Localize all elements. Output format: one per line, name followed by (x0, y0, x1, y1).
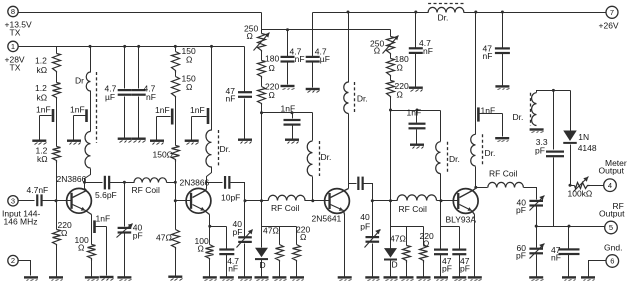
inductor RF Coil 2 (268, 195, 305, 200)
terminal 8 (+13.5V TX) (8, 6, 18, 16)
label 40 (trim2) (360, 212, 370, 222)
capacitor 47nF (26V bypass) (495, 13, 510, 86)
node coil1 junction (174, 181, 177, 184)
ground 4.7nF mid (281, 85, 295, 90)
resistor 100 (Q1 emitter) (88, 245, 96, 261)
label 1nF (choke A) (70, 105, 85, 115)
label Input 144- (2, 209, 40, 219)
svg-text:Ω: Ω (198, 244, 204, 254)
svg-text:Output: Output (599, 208, 625, 218)
core choke D (447, 142, 449, 174)
ground 47 Q2 base (168, 276, 182, 281)
svg-text:4: 4 (608, 181, 612, 190)
wire Q4 emitter (474, 215, 476, 277)
wire 1nF A to ground (74, 116, 86, 140)
svg-text:Dr.: Dr. (321, 152, 332, 162)
svg-text:47Ω: 47Ω (390, 233, 406, 243)
svg-text:5: 5 (609, 223, 613, 232)
wire Q2 collector riser (206, 183, 208, 189)
wire base to 47pF pair (441, 201, 460, 227)
svg-text:pF: pF (516, 205, 526, 215)
svg-text:D: D (260, 260, 266, 270)
svg-text:8: 8 (11, 7, 15, 16)
node stage2 net top (260, 199, 263, 202)
svg-text:pF: pF (460, 263, 470, 273)
terminal 4 (Meter Output) (604, 179, 617, 192)
node rail 4.7nF st3 tap (414, 11, 417, 14)
label 1nF (Q1 emitter) (96, 214, 111, 224)
label 220 (Q1 base) (58, 220, 72, 230)
trimmer resistor 250 (chain1) (254, 33, 270, 52)
label 220 (chain1) (265, 82, 279, 92)
label pF (b) (460, 263, 470, 273)
svg-text:Dr.: Dr. (438, 13, 449, 23)
svg-text:nF: nF (226, 93, 236, 103)
wire 47 to ground (175, 250, 177, 277)
svg-text:RF Coil: RF Coil (271, 203, 299, 213)
inductor Dr E (Q4 collector choke) (471, 134, 476, 166)
node stage3 out junction (371, 199, 374, 202)
capacitor 5.6pF (104, 176, 111, 190)
svg-text:1nF: 1nF (190, 105, 205, 115)
terminal 6 (Gnd) (606, 255, 619, 268)
label Ohm 250 c2 (374, 46, 380, 56)
svg-text:Ω: Ω (269, 63, 275, 73)
wire to Q2 base node (175, 183, 177, 201)
ground 47 stage3 (400, 276, 414, 280)
transistor Q3 2N5641 (325, 189, 350, 215)
core choke A (96, 72, 98, 143)
terminal 5 (RF Output) (605, 221, 618, 234)
inductor Dr (Q3 collector choke) (344, 82, 349, 114)
wire 150 column top (175, 47, 177, 52)
node rail 4.7nF junction (137, 45, 140, 48)
svg-text:Gnd.: Gnd. (604, 242, 622, 252)
capacitor series (Q3 out) (357, 177, 364, 190)
node rail-choke junction (89, 45, 92, 48)
resistor 150 (b) (172, 77, 180, 98)
label uF (TL) (105, 92, 115, 102)
label pF (trim1) (233, 227, 243, 237)
inductor RF Coil 3 (397, 195, 436, 201)
node rail Q3 collector junction (347, 11, 350, 14)
label 250 (chain2) (370, 38, 384, 48)
label 47 (out) (551, 245, 561, 255)
svg-text:1nF: 1nF (407, 107, 422, 117)
label TX (28V) (10, 62, 21, 72)
label TX (13.5V) (10, 27, 21, 37)
ground at terminal 2 (24, 276, 38, 280)
wire choke A middle (90, 91, 92, 132)
resistor 220 (stage3 net) (420, 227, 428, 277)
wire bias1 down to choke C (312, 113, 314, 141)
label D (stage3) (392, 260, 398, 270)
label Dr. (choke B) (220, 144, 231, 154)
svg-text:RF Coil: RF Coil (489, 169, 517, 179)
svg-text:Ω: Ω (374, 46, 380, 56)
ground 1nF bias Q1 (32, 140, 46, 145)
wire Q3 emitter (344, 215, 346, 277)
ground 220 Q1 base (49, 276, 63, 280)
label Dr (choke A) (75, 76, 84, 86)
capacitor 47pF (a) (434, 227, 448, 277)
node rail 150 junction (174, 45, 177, 48)
label 4.7nF input (27, 185, 49, 195)
svg-text:1nF: 1nF (96, 214, 111, 224)
label Meter (605, 158, 627, 168)
wire 250-180 c1 (261, 52, 263, 61)
ground 47pF b (452, 276, 466, 280)
capacitor 1nF feedthrough (Q1 emitter) (93, 220, 96, 233)
label 1nF (choke E) (481, 105, 496, 115)
wire 100k to terminal 4 (590, 185, 604, 187)
label 47 (b) (460, 256, 470, 266)
label kOhm (c) (37, 154, 48, 164)
svg-text:Ω: Ω (186, 54, 192, 64)
label 5.6pF (95, 190, 117, 200)
svg-text:Dr.: Dr. (485, 148, 496, 158)
ground 4.7nF TL (132, 138, 146, 143)
wire between 150 a-b (175, 73, 177, 77)
node detector 3.3pF tap (552, 89, 555, 92)
label D (stage2) (260, 260, 266, 270)
svg-text:Dr.: Dr. (513, 112, 524, 122)
label Ohm (Q2em) (198, 244, 204, 254)
svg-text:Output: Output (599, 165, 625, 175)
svg-text:Ω: Ω (397, 63, 403, 73)
capacitor 1nF (bias node 2) (284, 113, 301, 139)
resistor 220 (chain1) (258, 87, 266, 105)
wire 150c to coil node (175, 162, 177, 183)
label pF (a) (442, 263, 452, 273)
capacitor 1nF (bias node 3) (409, 111, 426, 144)
label 1.2 (c) (36, 146, 48, 156)
wire 1nF em to ground (96, 227, 107, 276)
svg-text:BLY93A: BLY93A (446, 214, 477, 224)
label 47 Ohm (stage3 net) (390, 233, 406, 243)
label Ohm 220 c1 (269, 90, 275, 100)
svg-text:kΩ: kΩ (37, 154, 48, 164)
wire Q1 collector riser (84, 183, 86, 189)
diode D (stage3) (384, 227, 397, 277)
label 40 (out) (517, 198, 527, 208)
label +13.5V (5, 20, 33, 30)
label 150 (b) (182, 74, 196, 84)
svg-text:RF Coil: RF Coil (132, 185, 160, 195)
wire Q2 base lead (176, 200, 187, 202)
ground choke F (530, 128, 544, 132)
label Ohm (Q1em) (78, 243, 84, 253)
ground 220 stage3 (417, 276, 431, 280)
ground 1nF Q1 emitter (100, 276, 114, 281)
wire detector top line (537, 91, 571, 93)
capacitor 3.3pF (546, 91, 564, 227)
capacitor 47nF (28V rail bypass) (238, 47, 252, 139)
label 100kOhm (568, 188, 593, 198)
svg-text:100kΩ: 100kΩ (568, 188, 593, 198)
label 47 Ohm (Q2 base) (156, 232, 172, 242)
wire choke A top (90, 47, 92, 73)
capacitor 1nF feedthrough (bias Q1) (52, 109, 55, 122)
svg-text:4148: 4148 (578, 143, 597, 153)
label RF (output) (613, 201, 624, 211)
core choke F (530, 93, 532, 126)
ground 100 Q1 emitter (85, 276, 99, 280)
wire 150 column mid (175, 98, 177, 146)
resistor 150 (a) (172, 52, 180, 73)
inductor Dr A upper (86, 72, 90, 91)
wire 1nF E to ground (480, 114, 503, 137)
capacitor 1nF feedthrough (choke B) (207, 108, 210, 124)
wire Q3 cap to corner (364, 184, 373, 201)
ground trimmer2 (365, 276, 379, 280)
wire choke E to collector node (475, 167, 477, 188)
node trimmer0 junction (123, 181, 126, 184)
label 4.7 (uF TL) (105, 84, 117, 94)
inductor Dr C (Q3 base choke) (307, 141, 312, 176)
label +26V (599, 21, 619, 31)
wire Q3 collector riser top (348, 13, 350, 83)
label RF Coil 4 (489, 169, 517, 179)
node bias1 tap (260, 111, 263, 114)
transistor Q1 2N3866 (67, 188, 92, 214)
svg-text:1: 1 (11, 42, 15, 51)
wire +13.5V rail (19, 12, 262, 14)
capacitor 10pF (224, 176, 231, 189)
capacitor 4.7uF (26V bypass) (306, 13, 320, 88)
label kOhm (a) (37, 65, 48, 75)
label Ohm 220 c2 (397, 89, 403, 99)
label Ohm (Q1 base) (61, 228, 67, 238)
wire bias1 line (262, 112, 313, 114)
svg-text:Dr.: Dr. (220, 144, 231, 154)
label nF (st3) (423, 46, 433, 56)
wire +26V rail right part (464, 12, 607, 14)
ground 1nF choke B (185, 140, 199, 145)
wire 1.2k c to base node (56, 163, 58, 201)
svg-text:2N3866: 2N3866 (57, 174, 87, 184)
svg-text:Dr.: Dr. (357, 94, 368, 104)
label 180 (chain1) (265, 53, 279, 63)
label 1nF (choke B) (190, 105, 205, 115)
wire coil1 to 150 column (167, 182, 176, 184)
wire Q3 collector riser bottom (348, 114, 350, 189)
resistor 220 (Q1 base) (53, 201, 61, 246)
label 1nF (bias node2) (281, 104, 296, 114)
terminal 3 (input) (8, 196, 18, 206)
label 3.3 (536, 137, 548, 147)
trimmer capacitor 40pF (stage2) (237, 201, 253, 277)
svg-text:Dr: Dr (75, 76, 84, 86)
node meter junction (569, 184, 572, 187)
wire Q1 emitter riser (91, 215, 93, 245)
label 4.7 (mid nF) (290, 47, 302, 57)
label 2N5641 (312, 213, 342, 223)
svg-text:µF: µF (320, 54, 330, 64)
label pF (3.3) (535, 145, 545, 155)
label Dr. (Q3 collector choke) (357, 94, 368, 104)
svg-text:TX: TX (10, 27, 21, 37)
ground 4.7uF mid (306, 88, 320, 93)
core of rail choke (428, 3, 464, 5)
label Ohm 150b (186, 82, 192, 92)
resistor 47 (stage3 net) (403, 227, 411, 277)
resistor 1.2k (c) (53, 147, 61, 163)
wire bias2 down to choke D (440, 111, 442, 142)
inductor RF Coil 4 (488, 182, 524, 187)
svg-text:3: 3 (11, 196, 15, 205)
resistor 100 (Q2 emitter) (206, 245, 214, 260)
ground diode stage2 (255, 276, 269, 280)
svg-text:2N3866: 2N3866 (180, 178, 210, 188)
wire Q4 collector riser (475, 188, 477, 189)
wire choke A to collector node (85, 169, 91, 183)
transistor Q4 BLY93A (453, 189, 478, 215)
label Output (meter) (599, 165, 625, 175)
node stage2 out junction (244, 199, 247, 202)
inductor Dr B (206, 130, 212, 167)
node Q2 emitter junction (208, 225, 211, 228)
svg-text:2N5641: 2N5641 (312, 213, 342, 223)
label RF Coil 2 (271, 203, 299, 213)
inductor Dr D (Q4 base choke) (436, 142, 441, 174)
svg-text:nF: nF (295, 54, 305, 64)
label 1nF (bias node3) (407, 107, 422, 117)
svg-text:D: D (392, 260, 398, 270)
svg-text:2: 2 (11, 256, 15, 265)
ground 4.7nF st3 (409, 87, 423, 92)
label 250 (chain1) (244, 23, 258, 33)
svg-text:1nF: 1nF (70, 105, 85, 115)
wire +28V rail (19, 46, 245, 48)
label 4.7 (nF TL) (144, 84, 156, 94)
inductor RF Coil 1 (134, 178, 167, 183)
svg-text:nF: nF (228, 263, 238, 273)
resistor 180 (chain1) (258, 61, 266, 79)
wire chain1 top corner (261, 30, 263, 34)
node 1nF bias2 tap (291, 111, 294, 114)
trimmer capacitor 60pF (output) (529, 227, 544, 277)
node rail2 4.7nF tap (286, 28, 289, 31)
label nF (Q2em cap) (228, 263, 238, 273)
trimmer resistor 250 (chain2) (383, 35, 399, 54)
wire to coil3 (373, 200, 398, 202)
ground 47 stage2 (272, 276, 286, 280)
svg-text:180: 180 (265, 53, 279, 63)
node stage3 net top (389, 199, 392, 202)
wire to coil2 (245, 200, 269, 202)
wire bias column mid (56, 99, 58, 147)
label 146 MHz (4, 217, 38, 227)
wire 220 to ground (56, 246, 58, 277)
capacitor 4.7nF input (36, 194, 56, 206)
terminal 7 (+26V) (606, 6, 618, 18)
wire coil2 to Q3 base (305, 200, 325, 202)
resistor 47 (Q2 base) (172, 201, 180, 250)
svg-text:kΩ: kΩ (37, 92, 48, 102)
node Q1 collector (83, 181, 86, 184)
wire Q2 emitter riser (209, 215, 211, 245)
svg-text:nF: nF (423, 46, 433, 56)
svg-text:Ω: Ω (269, 90, 275, 100)
ground 1nF choke A (67, 140, 81, 145)
wire 100 to ground (91, 261, 93, 277)
label 47 Ohm (stage2 net) (263, 225, 279, 235)
label nF (out) (551, 253, 561, 263)
label pF (trim0) (133, 231, 143, 241)
wire +26V rail left part (313, 12, 429, 14)
ground 47nF rail (495, 85, 509, 89)
label 150 (a) (182, 46, 196, 56)
label Dr. (choke D) (449, 154, 460, 164)
label 40 (trim0) (133, 223, 143, 233)
node Q1 base junction (55, 199, 58, 202)
terminal 2 (8, 255, 18, 265)
svg-text:Ω: Ω (397, 89, 403, 99)
diode 1N4148 (563, 91, 577, 186)
svg-text:1nF: 1nF (36, 105, 51, 115)
label BLY93A (446, 214, 477, 224)
svg-text:10pF: 10pF (221, 192, 240, 202)
ground 60pF (529, 276, 543, 280)
svg-text:nF: nF (551, 253, 561, 263)
node bias2 tap (389, 109, 392, 112)
label Dr. (choke E) (485, 148, 496, 158)
label Ohm 150a (186, 54, 192, 64)
label Ohm 180 c1 (269, 63, 275, 73)
wire choke B top (211, 47, 213, 131)
label 47 (rail) (483, 43, 493, 53)
node rail choke E junction (474, 11, 477, 14)
label Dr. (choke C) (321, 152, 332, 162)
wire 1nF B to ground (192, 117, 207, 140)
wire between 1.2k a-b (56, 73, 58, 83)
label RF Coil 3 (399, 204, 427, 214)
label 180 (chain2) (395, 54, 409, 64)
wire 100b to ground (209, 260, 211, 277)
node 1nF bias3 tap (416, 109, 419, 112)
capacitor 47nF (output) (559, 227, 580, 277)
label 2N3866 (Q2) (180, 178, 210, 188)
trimmer capacitor 40pF (stage1) (117, 183, 133, 277)
wire chain1 to bias node (261, 105, 263, 201)
label Ohm (stage2 net) (300, 232, 306, 242)
label 10pF (221, 192, 240, 202)
label Ohm 250 c1 (247, 31, 253, 41)
resistor 180 (chain2) (387, 59, 395, 77)
svg-text:+26V: +26V (599, 21, 619, 31)
terminal 1 (+28V TX) (8, 41, 18, 51)
capacitor 47pF (b) (452, 227, 466, 277)
wire 1nF Q2 to ground (157, 117, 171, 140)
svg-text:Ω: Ω (78, 243, 84, 253)
diode D (stage2) (255, 227, 268, 277)
svg-text:Ω: Ω (61, 228, 67, 238)
ground trimmer1 (238, 276, 252, 280)
svg-text:pF: pF (535, 145, 545, 155)
capacitor 1nF feedthrough (choke E) (477, 107, 480, 121)
ground 1nF bias Q2 (150, 140, 164, 145)
wire choke B to collector node (207, 167, 212, 183)
svg-text:1nF: 1nF (155, 105, 170, 115)
svg-text:nF: nF (146, 92, 156, 102)
svg-text:146 MHz: 146 MHz (4, 217, 38, 227)
label 47 (st2) (226, 86, 236, 96)
capacitor 4.7nF (26V bypass) (409, 13, 423, 87)
core choke B (218, 130, 220, 167)
ground 47nF st2 (238, 139, 252, 144)
wire stage2 net node (262, 201, 297, 227)
